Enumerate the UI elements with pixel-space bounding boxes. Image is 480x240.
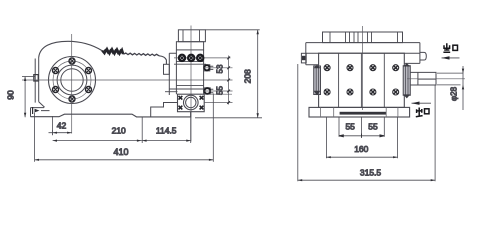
dim 315.5 arrows [298,179,435,181]
port centerline lower [204,90,233,92]
head bolt r2c4 [393,89,399,95]
base profile [31,112,191,117]
valve cap 2 [188,55,194,61]
right flange band [403,66,410,96]
outlet arrow [442,57,460,59]
manifold vertical centerline [190,26,192,142]
valve cover lower rect [176,42,203,50]
head bolt r1c4 [393,65,399,71]
upper side port boss [204,65,214,71]
svg-text:410: 410 [113,147,128,157]
svg-text:315.5: 315.5 [360,168,382,178]
base step under manifold [151,103,177,117]
svg-text:55: 55 [216,86,225,95]
dim 114.5 right extension [190,112,192,143]
valve cap ticks [182,54,200,62]
svg-text:160: 160 [354,144,368,154]
dim 410 right extension [212,94,214,162]
dim 55 55 arrows [339,134,384,138]
flange centerline right [204,102,232,104]
crankcase front plate [35,58,39,103]
head bolt r1c2 [347,65,353,71]
inlet label jinkou [416,108,429,117]
flange inner circle 2 [61,69,83,91]
svg-text:210: 210 [112,126,126,136]
dim 114.5 arrows [142,140,191,142]
dim 208 top extension [205,29,259,31]
dim 210 arrows [53,140,142,142]
dim 160 extensions [326,117,397,158]
svg-text:90: 90 [6,90,16,100]
dim 114.5 line [141,140,190,142]
plunger divider lines [339,53,385,107]
svg-text:55: 55 [345,122,355,132]
dim 160 line [326,156,397,158]
svg-text:42: 42 [57,120,67,130]
dim 315.5 line [298,179,435,181]
crankcase vertical centerline [71,34,73,134]
foot arrow marks [35,109,40,113]
left small box bolt [302,56,305,60]
bolt circle [53,61,91,99]
flange corner bolt a [179,96,183,100]
valve cover top rect [178,30,205,42]
body top right corner [159,56,166,65]
dim 55 55 extensions [339,117,384,137]
flange inner circle 1 [57,65,87,95]
right flange dark marks [403,63,410,98]
dim 90 extension top [22,76,35,78]
dim 42 line [49,130,72,135]
upper band [306,43,420,65]
svg-text:53: 53 [216,64,225,73]
flange corner bolt c [179,106,183,110]
dim 90 arrows [24,77,26,118]
dim 53 55 line [228,56,230,105]
top tabs inner lines [330,32,398,43]
outlet label chukou [443,43,457,52]
dim 42 arrows [53,132,72,134]
dim 208 line [257,30,259,118]
lower side port cap [204,88,210,94]
head bolt r1c3 [370,65,376,71]
manifold horizontal lines [169,62,206,89]
flange corner bolt b [200,96,204,100]
dim 160 arrows [326,156,397,158]
dim 210 line [53,140,142,142]
inlet arrow [412,102,432,104]
crankshaft horizontal centerline [22,79,233,81]
base plate [309,107,410,117]
dim phi28 arrows [462,69,464,90]
dim 208 arrows [257,30,259,118]
dim 42 extension [52,116,54,135]
left flange dark marks [314,65,321,96]
svg-text:208: 208 [243,69,253,83]
shaft centerline [407,78,465,80]
dim 315.5 extensions [298,64,435,181]
port centerline upper [204,67,233,69]
manifold left block [164,64,170,74]
suction port circle inner [186,97,196,107]
flange bolt top [69,58,75,64]
dim 53 55 ticks [227,57,230,104]
dim 90 line [24,77,26,118]
shaft stub left [34,75,38,81]
right knob [420,52,426,60]
flange bolt upper-left [53,68,59,74]
left flange band [314,66,321,95]
dim 410 arrows [35,159,214,161]
main block [319,53,405,107]
dim 114.5 extension [141,117,143,143]
base feet lines [321,107,398,117]
svg-text:φ28: φ28 [450,86,459,101]
cover rect inner lines [183,30,200,42]
dim phi28 extensions [437,73,463,85]
valve cap centerline [174,57,231,59]
cast surface zigzag coarse [102,49,124,55]
flange bolt upper-right [86,68,92,74]
flange corner bolt d [200,106,204,110]
flange bolt lower-right [86,87,92,93]
block vertical centerline [362,26,364,110]
left small box [301,53,306,63]
valve cap 1 [179,55,185,61]
head bolt r1c1 [324,65,330,71]
cast surface zigzag fine [124,53,160,56]
head bolt r2c3 [370,89,376,95]
bottom flange [178,94,205,112]
flange left tick line [165,91,178,93]
dim phi28 line [462,66,464,110]
dim 410 line [35,159,214,161]
flange top edge extension [204,93,232,95]
dim 208 bottom extension [195,117,262,119]
upper side port cap [204,65,209,70]
shaft [410,72,436,85]
dim 55 55 line [339,135,384,137]
foot bracket [31,102,50,117]
top tabs rect [323,32,403,43]
suction port circle outer [184,95,199,110]
flange bolt lower-left [53,87,59,93]
svg-text:55: 55 [368,122,378,132]
head bolt r2c2 [347,89,353,95]
dim 410 left extension [34,113,36,162]
lower side port boss [204,88,214,94]
flange bolt bottom [69,96,75,102]
base inlet slot [340,112,387,115]
manifold body [169,50,203,95]
crankcase top arc [39,41,102,57]
svg-text:114.5: 114.5 [156,125,177,135]
valve cap 3 [197,55,203,61]
head bolt r2c1 [324,89,330,95]
flange outer circle [49,57,96,104]
